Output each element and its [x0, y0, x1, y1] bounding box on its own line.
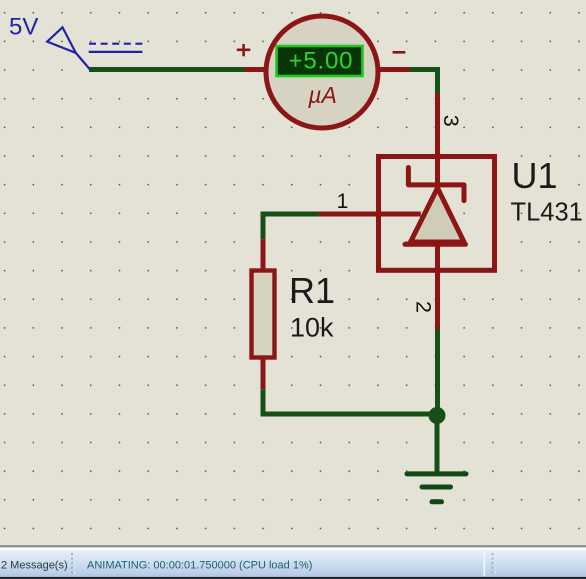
pin 2 wire (red)	[435, 244, 440, 329]
wire ammeter to corner and down	[410, 70, 438, 96]
polarity mark -	[393, 51, 406, 54]
svg-text:TL431: TL431	[511, 199, 583, 227]
R1 top pin (red)	[261, 239, 266, 270]
svg-text:µA: µA	[307, 82, 337, 108]
ground	[407, 474, 466, 502]
ammeter right pin	[377, 67, 410, 72]
power terminal POS	[47, 27, 90, 69]
svg-text:10k: 10k	[290, 313, 334, 343]
status bar separator line	[0, 545, 586, 547]
pin 3 wire (red)	[435, 93, 440, 186]
svg-text:U1: U1	[512, 155, 558, 196]
svg-text:3: 3	[439, 115, 463, 127]
U1 anode bar	[405, 242, 466, 247]
svg-text:ANIMATING: 00:00:01.750000 (CP: ANIMATING: 00:00:01.750000 (CPU load 1%)	[87, 559, 312, 571]
wire junction to ground	[435, 416, 440, 472]
ammeter body	[266, 16, 378, 128]
svg-text:2: 2	[412, 301, 436, 313]
svg-text:2 Message(s): 2 Message(s)	[1, 559, 68, 571]
svg-text:R1: R1	[289, 270, 335, 311]
wire pin1 to R1	[263, 214, 319, 239]
status bar	[0, 550, 586, 577]
DC symbol	[89, 44, 143, 52]
ammeter display	[277, 46, 363, 76]
pin 1 wire (red)	[319, 212, 421, 217]
wire pin2 to junction	[435, 329, 440, 414]
svg-text:1: 1	[337, 190, 349, 213]
svg-text:+5.00: +5.00	[289, 48, 354, 75]
status bar grip 1	[72, 553, 75, 575]
U1 zener cathode bar	[408, 168, 464, 201]
junction dot	[429, 407, 446, 424]
U1 zener triangle	[411, 188, 465, 242]
wire R1 to junction	[263, 389, 437, 414]
svg-text:5V: 5V	[9, 14, 38, 41]
status bar grip 2	[493, 553, 496, 575]
polarity mark +	[237, 44, 251, 56]
ammeter left pin	[244, 67, 268, 72]
status bar separator 2	[484, 551, 486, 576]
resistor R1 body	[252, 271, 275, 358]
U1 body box	[379, 157, 495, 271]
R1 bottom pin (red)	[261, 358, 266, 389]
wire from terminal to ammeter	[89, 67, 244, 72]
